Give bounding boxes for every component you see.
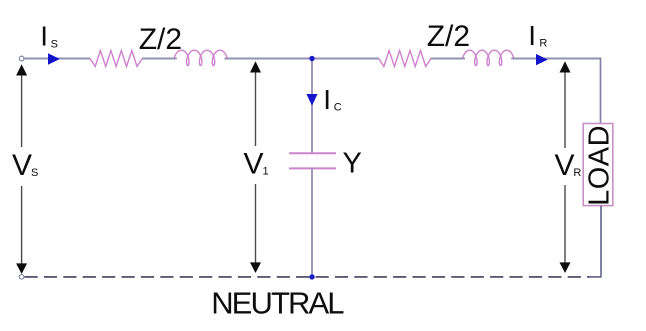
resistor Z/2 right xyxy=(379,51,431,67)
capacitor / admittance Y top plate xyxy=(289,152,336,154)
label V1 xyxy=(244,147,269,180)
voltage arrow Vr line upper xyxy=(564,63,566,148)
svg-text:S: S xyxy=(31,167,38,179)
junction dot node 1 xyxy=(309,56,314,61)
svg-text:NEUTRAL: NEUTRAL xyxy=(211,285,344,320)
voltage arrow Vr head down xyxy=(560,262,571,273)
wire: load to neutral corner xyxy=(588,206,601,277)
svg-text:R: R xyxy=(573,167,581,179)
load box xyxy=(583,124,613,206)
svg-text:R: R xyxy=(539,38,547,50)
neutral dashed line xyxy=(25,276,590,278)
current arrow Ic xyxy=(306,94,317,106)
svg-text:V: V xyxy=(12,149,32,182)
label Ic xyxy=(323,84,342,115)
capacitor / admittance Y bottom plate xyxy=(289,167,336,169)
voltage arrow Vs line lower xyxy=(21,186,23,266)
svg-text:I: I xyxy=(40,20,48,51)
svg-text:V: V xyxy=(244,147,264,180)
voltage arrow Vs head down xyxy=(16,263,27,274)
svg-text:S: S xyxy=(51,38,58,50)
voltage arrow Vr head up xyxy=(560,61,571,72)
svg-text:I: I xyxy=(528,20,536,51)
inductor L left xyxy=(174,50,227,65)
svg-text:Z/2: Z/2 xyxy=(427,20,470,53)
label Ir xyxy=(528,20,547,51)
svg-text:1: 1 xyxy=(263,165,269,177)
node: source top terminal (open circle) xyxy=(19,56,24,61)
wire: shunt branch lower xyxy=(311,168,313,277)
label Is xyxy=(40,20,58,51)
wire between resistor and inductor (left) xyxy=(142,58,177,60)
svg-text:Y: Y xyxy=(343,147,362,179)
svg-text:V: V xyxy=(555,149,575,182)
svg-text:C: C xyxy=(334,102,342,114)
junction dot on neutral xyxy=(309,274,314,279)
wire: inductor to right resistor (through node 1) xyxy=(225,58,379,60)
svg-text:I: I xyxy=(323,84,331,115)
voltage arrow V1 line lower xyxy=(255,184,257,270)
current arrow Ir xyxy=(536,54,548,65)
voltage arrow Vr line lower xyxy=(564,185,566,270)
voltage arrow V1 head up xyxy=(250,61,261,72)
resistor Z/2 left xyxy=(90,51,142,67)
voltage arrow V1 head down xyxy=(250,262,261,273)
svg-text:LOAD: LOAD xyxy=(584,125,616,206)
wire between right resistor and inductor xyxy=(431,58,465,60)
label Vr xyxy=(555,149,582,182)
node: source bottom terminal (open circle) xyxy=(19,275,24,280)
voltage arrow V1 line upper xyxy=(255,63,257,146)
voltage arrow Vs line upper xyxy=(21,72,23,147)
wire: shunt branch upper xyxy=(311,59,313,154)
svg-text:Z/2: Z/2 xyxy=(139,23,182,56)
current arrow Is xyxy=(48,53,60,64)
label Vs xyxy=(12,149,38,182)
wire: inductor to top-right corner xyxy=(511,58,600,60)
inductor L right xyxy=(463,50,514,65)
wire top: circle to resistor xyxy=(24,58,90,60)
wire: right vertical, corner to load xyxy=(600,58,602,124)
voltage arrow Vs head up xyxy=(16,64,27,75)
